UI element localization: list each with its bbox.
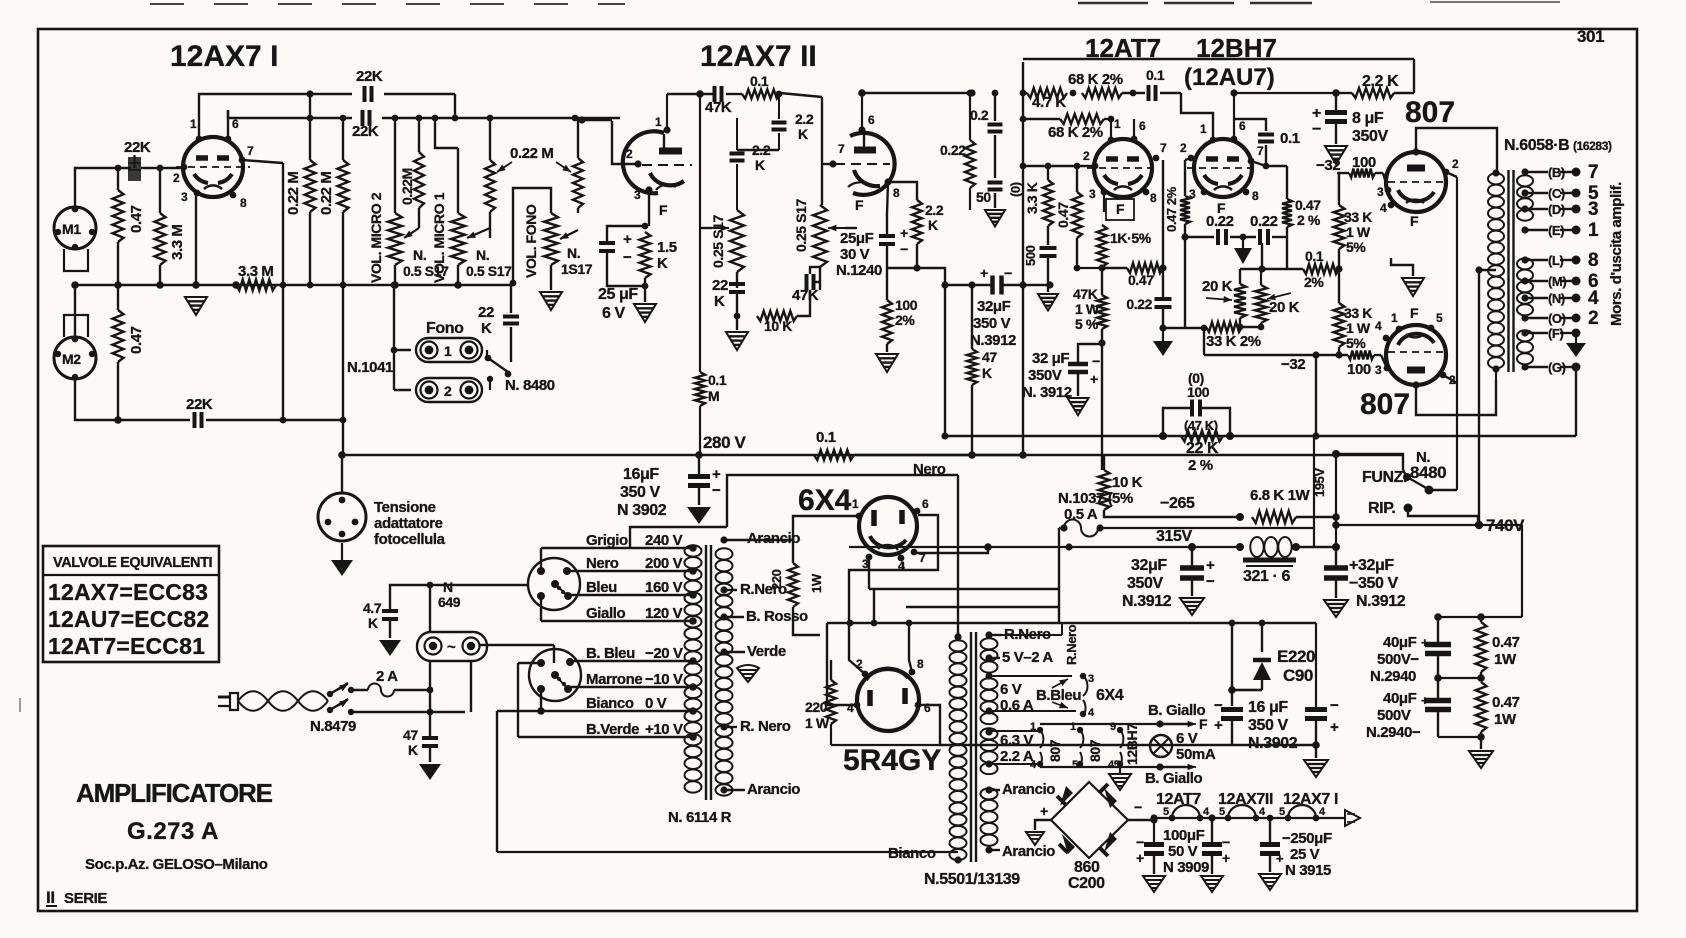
svg-text:1W: 1W (809, 573, 824, 593)
tube V7 pin3 (866, 554, 873, 561)
svg-text:Marrone: Marrone (586, 671, 642, 688)
svg-text:8: 8 (240, 196, 247, 210)
wire pin3 down (195, 196, 197, 285)
ground V2a cathode (634, 304, 656, 322)
svg-text:N 3909: N 3909 (1163, 859, 1209, 876)
resistor 3.3M horizontal (236, 280, 276, 291)
sec Arancio top (985, 786, 992, 793)
svg-text:1W: 1W (1494, 711, 1517, 728)
heater hump 12AX7I (1288, 805, 1316, 818)
svg-text:B. Bleu: B. Bleu (586, 645, 635, 662)
wire 240V feed (630, 527, 727, 548)
ground heater (1119, 767, 1121, 774)
tube V2a pin3 (645, 186, 652, 193)
ground 0.22 mid (1242, 237, 1244, 248)
svg-text:1.5: 1.5 (657, 239, 677, 256)
svg-text:240 V: 240 V (645, 532, 683, 549)
voltage selector socket lower (529, 649, 581, 701)
mic socket M2 (54, 337, 96, 379)
svg-text:adattatore: adattatore (374, 515, 443, 532)
svg-text:2 A: 2 A (376, 668, 398, 685)
svg-text:0.1: 0.1 (1146, 67, 1165, 83)
wire 0.47 M2 leads (117, 285, 119, 310)
wire V5 plate to transformer top (1416, 128, 1497, 170)
wire 47K-pot join (814, 281, 820, 283)
tube V7 pin4 (898, 555, 905, 562)
wire lower mains to 47K (430, 711, 465, 713)
svg-text:+: + (900, 225, 908, 241)
svg-text:N. 8480: N. 8480 (505, 377, 555, 394)
capacitor 250uF 25V (1260, 842, 1280, 847)
wire 0.22 leads (969, 93, 971, 140)
wire fb ends (1102, 267, 1127, 269)
resistor 0.47 2pc grid (1180, 196, 1190, 224)
wire 16uF leads (698, 455, 700, 477)
svg-text:7: 7 (1257, 144, 1264, 158)
svg-text:−: − (1136, 834, 1144, 850)
wire y269 mixer (1240, 268, 1303, 270)
resistor 0.22M micro2 series (414, 152, 424, 208)
svg-text:0.47: 0.47 (1492, 694, 1520, 711)
svg-text:9: 9 (1110, 721, 1116, 733)
svg-text:N 3915: N 3915 (1285, 862, 1331, 879)
svg-text:12AX7 I: 12AX7 I (170, 40, 278, 73)
sec tap R.Nero (720, 586, 727, 593)
resistor 0.22M right (338, 160, 349, 212)
transformer T2 right winding c (981, 728, 998, 739)
svg-text:F: F (1199, 716, 1208, 732)
svg-text:F: F (855, 197, 864, 213)
wire 3.3M riser (282, 163, 284, 420)
svg-text:K: K (408, 742, 418, 758)
svg-text:+: + (1214, 717, 1223, 734)
svg-text:B. Giallo: B. Giallo (1148, 702, 1205, 719)
wire 22K cap right (384, 93, 455, 95)
svg-text:K: K (798, 126, 808, 142)
svg-text:120 V: 120 V (645, 605, 683, 622)
tube V4 pin7 (1248, 158, 1255, 165)
svg-text:1 W: 1 W (1346, 224, 1371, 240)
tube V3 12AT7 (1094, 139, 1152, 197)
capacitor 25uF 6V (599, 241, 615, 245)
svg-text:2.2 A: 2.2 A (1000, 748, 1034, 765)
ground 100uF (1143, 876, 1165, 892)
ground bias (1304, 760, 1328, 777)
svg-text:K: K (481, 320, 492, 337)
svg-text:2: 2 (444, 383, 452, 399)
tube V5 pin3 (1385, 187, 1392, 194)
svg-text:Arancio: Arancio (1002, 781, 1055, 798)
svg-text:3.3 M: 3.3 M (238, 263, 274, 280)
svg-text:1: 1 (1070, 721, 1076, 733)
resistor 47K middle (967, 349, 977, 385)
svg-text:32μF: 32μF (1131, 557, 1167, 574)
svg-text:0 V: 0 V (645, 695, 667, 712)
svg-text:K: K (982, 365, 992, 381)
svg-text:−: − (623, 249, 632, 266)
svg-text:6: 6 (924, 701, 931, 715)
capacitor 50 bypass (988, 181, 1003, 185)
svg-text:N. 6114 R: N. 6114 R (668, 809, 732, 826)
svg-text:R. Nero: R. Nero (740, 718, 791, 735)
svg-text:F: F (1410, 305, 1419, 321)
pot fono wiper arrow (560, 230, 578, 239)
svg-text:0.22M: 0.22M (399, 168, 415, 205)
wire 33K2 chain (1204, 326, 1206, 328)
svg-text:6 V: 6 V (1176, 730, 1198, 747)
wire 2.2Kb leads (736, 118, 738, 150)
wire top link 93-118 (309, 94, 311, 118)
svg-text:32μF: 32μF (977, 298, 1011, 315)
svg-text:1: 1 (190, 117, 197, 131)
svg-text:3.3 M: 3.3 M (169, 224, 186, 260)
svg-text:47K: 47K (792, 287, 819, 304)
svg-text:M: M (708, 388, 719, 404)
output terminal D (1521, 205, 1528, 212)
svg-text:2: 2 (626, 147, 633, 161)
svg-text:10 K: 10 K (764, 318, 792, 334)
wire bias from Nero (1231, 620, 1233, 623)
svg-text:1: 1 (1391, 311, 1398, 325)
capacitor 32uF 350V right (1324, 565, 1348, 571)
transformer T-power secondary winding (716, 548, 733, 559)
wire 40uF upper leads (1437, 617, 1439, 644)
resistor 100 2percent (882, 300, 892, 344)
capacitor 2.2K a (772, 121, 787, 125)
svg-text:+: + (1330, 719, 1339, 736)
svg-text:3: 3 (1588, 199, 1598, 220)
svg-text:807: 807 (1087, 739, 1103, 762)
resistor 0.47 fb (1127, 263, 1163, 273)
wire 25uF30 top (886, 182, 888, 236)
svg-text:+: + (1276, 851, 1284, 866)
svg-text:6: 6 (922, 497, 929, 511)
wire 25uF top (607, 226, 645, 243)
wire input bottom bus (75, 284, 283, 286)
svg-text:20 K: 20 K (1269, 299, 1300, 316)
wire 33K upper leads (1336, 173, 1338, 205)
tube V3 pin2 (1092, 163, 1099, 170)
wire 220 lower (830, 660, 832, 680)
svg-text:+: + (1136, 850, 1144, 866)
filament arc 12BH7 (1120, 730, 1123, 748)
svg-text:2.2: 2.2 (795, 111, 814, 127)
ground terminal F (1566, 343, 1586, 357)
svg-text:N.3912: N.3912 (970, 332, 1016, 349)
svg-text:8: 8 (1150, 191, 1157, 205)
wire 6X4 cathode drop a (868, 558, 870, 589)
resistor 68K 2pc lower (1060, 114, 1104, 124)
svg-text:1: 1 (1200, 122, 1207, 136)
svg-text:2: 2 (1180, 141, 1187, 155)
capacitor 2.2K b (730, 152, 745, 156)
svg-text:33 K: 33 K (1344, 209, 1372, 225)
svg-text:B.Verde: B.Verde (586, 721, 639, 738)
tube V1 pin 8 (230, 192, 237, 199)
wire 4.7K bottom (389, 619, 391, 638)
capacitor 0.1 bh7 (1258, 133, 1274, 137)
svg-text:E220: E220 (1277, 647, 1315, 666)
svg-text:220: 220 (805, 699, 828, 715)
svg-text:3.3 K: 3.3 K (1024, 182, 1040, 214)
ground 4.7K (379, 640, 401, 656)
wire mains vertical right (470, 661, 472, 712)
wire lower mains (351, 711, 430, 713)
svg-text:B. Giallo: B. Giallo (1145, 770, 1202, 787)
svg-text:VOL. MICRO 2: VOL. MICRO 2 (368, 192, 384, 283)
svg-text:Verde: Verde (747, 643, 786, 660)
tube V2b pin8 (884, 178, 891, 185)
svg-text:K: K (657, 255, 668, 272)
svg-text:50 V: 50 V (1168, 843, 1198, 860)
svg-text:500: 500 (1023, 245, 1038, 266)
tube V3 pin1 (1108, 137, 1115, 144)
svg-text:25 μF: 25 μF (598, 286, 638, 303)
jack strip Fono 2 (416, 378, 482, 402)
mains switch upper (327, 691, 333, 697)
tube V5 pin4 (1388, 202, 1395, 209)
wire y93 rail AU7 (1234, 92, 1336, 94)
wire 250uF leads (1269, 818, 1271, 844)
wire 33K2 drop (1203, 328, 1205, 355)
svg-text:G.273 A: G.273 A (127, 818, 219, 845)
wire 20K left leads (1239, 269, 1241, 284)
tube V6 807 lower (1386, 325, 1446, 385)
svg-text:0.47: 0.47 (1128, 272, 1154, 288)
mains switch lower (327, 707, 333, 713)
resistor 0.47 1W lower (1476, 682, 1487, 732)
svg-text:47K: 47K (1073, 286, 1098, 302)
wire 100 bottom (886, 344, 888, 352)
svg-text:−265: −265 (1160, 495, 1195, 512)
svg-text:0.1: 0.1 (1305, 248, 1324, 264)
svg-text:8: 8 (1588, 250, 1598, 271)
capacitor 22K tone (729, 282, 745, 286)
svg-text:4: 4 (847, 701, 854, 715)
wire Nero drop to T2 (957, 475, 959, 637)
wire top rail AT7 (1023, 58, 1414, 61)
pot 0.25S17 right arrow (828, 227, 845, 229)
svg-text:1: 1 (1030, 721, 1036, 733)
wire bias diode join (1261, 689, 1263, 691)
svg-text:Grigio: Grigio (586, 532, 628, 549)
svg-text:50: 50 (976, 189, 991, 205)
svg-text:220: 220 (769, 569, 784, 590)
tube V3 pin8 (1143, 189, 1150, 196)
resistor 0.1 top (742, 90, 780, 99)
tube V1 pin 1 (198, 110, 200, 140)
ground 807 mid (1402, 278, 1424, 296)
tube V7 6X4 (859, 497, 917, 555)
pot micro2 wiper arrow (404, 228, 419, 238)
arrow 0.22M to left resistor (497, 162, 512, 172)
arrow heater bottom (1160, 766, 1193, 768)
tube V1 12AX7-I (183, 137, 243, 197)
voltage selector socket upper (528, 558, 580, 610)
svg-text:5 %: 5 % (1075, 316, 1099, 332)
svg-text:Giallo: Giallo (586, 605, 626, 622)
potentiometer VOL MICRO 2 (388, 213, 402, 265)
wire 100 lower right (1374, 354, 1381, 356)
svg-text:F: F (659, 202, 668, 218)
svg-text:4: 4 (1375, 319, 1382, 333)
svg-text:−: − (712, 482, 721, 499)
svg-text:N.3912: N.3912 (1122, 593, 1172, 610)
svg-text:3: 3 (1377, 185, 1384, 199)
svg-text:807: 807 (1405, 96, 1455, 129)
svg-text:10 K: 10 K (1112, 474, 1143, 491)
svg-text:22K: 22K (186, 396, 213, 413)
wire V2a plate drop lower (699, 406, 701, 455)
svg-text:4.7: 4.7 (363, 600, 382, 616)
svg-text:3: 3 (181, 190, 188, 204)
wire 6X4 cathode out (916, 547, 988, 553)
resistor 3.3K (1043, 180, 1053, 226)
output terminal G (1521, 363, 1528, 370)
tube V2b 12AX7-II triode (850, 133, 895, 195)
wire micro1 pot top (457, 148, 459, 213)
wire selector upper TL (540, 548, 542, 571)
capacitor 22K coupling top (363, 86, 367, 102)
wire fuse left (1059, 527, 1064, 529)
svg-text:Nero: Nero (586, 555, 619, 572)
bridge rectifier 860 C200 outline (1051, 782, 1128, 858)
resistor 33K 1W upper (1334, 205, 1345, 249)
wire 0.22M left leads (309, 118, 311, 160)
svg-text:K: K (714, 293, 725, 310)
svg-text:30 V: 30 V (840, 246, 870, 263)
svg-text:160 V: 160 V (645, 579, 683, 596)
wire 32uF left leads (1191, 547, 1193, 568)
heater chain wire (1154, 817, 1345, 819)
sec 6V row2 (985, 707, 992, 714)
capacitor 32uF 350V screen (1068, 362, 1088, 367)
ground 500 (1038, 294, 1058, 310)
svg-text:7: 7 (838, 142, 845, 156)
svg-text:FUNZ.: FUNZ. (1362, 469, 1407, 486)
transformer T2 right winding b (981, 678, 998, 689)
wire 2.2K ends (1336, 92, 1352, 94)
wire 50 bottom (994, 193, 996, 208)
svg-text:N. 3912: N. 3912 (1022, 384, 1072, 401)
svg-text:2 %: 2 % (1188, 457, 1213, 474)
svg-text:fotocellula: fotocellula (374, 531, 446, 548)
sec 5V row (985, 631, 992, 638)
wire fono2 left (394, 389, 411, 391)
capacitor 0.2 coupling (988, 123, 1003, 127)
tube V7 pin7 (911, 549, 918, 556)
wire channel y623 (827, 622, 1316, 624)
svg-text:B.Bleu: B.Bleu (1036, 687, 1081, 704)
wire supply bus 436 / G return (944, 435, 1576, 437)
svg-text:B. Rosso: B. Rosso (746, 608, 808, 625)
svg-text:(0): (0) (1008, 182, 1023, 197)
tube V3 pin3 (1101, 189, 1108, 196)
svg-text:N.1240: N.1240 (836, 262, 882, 279)
wire divider top (1438, 616, 1522, 618)
svg-text:8: 8 (1252, 189, 1259, 203)
sec tap Verde (720, 648, 727, 655)
wire top bus V2 (726, 93, 742, 95)
bridge diode SE (1104, 832, 1117, 852)
capacitor bias right (1305, 707, 1327, 712)
tube V7 pin6 (914, 508, 921, 515)
svg-text:5: 5 (1279, 806, 1285, 818)
svg-text:20 K: 20 K (1202, 278, 1233, 295)
transformer T-out sec winding 3 (1517, 330, 1533, 341)
scan artifact top left (150, 3, 625, 5)
svg-text:16 μF: 16 μF (1248, 699, 1288, 716)
arrow 0.22M to right resistor (556, 162, 571, 172)
resistor 0.22M fono series (573, 158, 583, 208)
svg-text:0.1: 0.1 (1280, 130, 1300, 147)
svg-text:SERIE: SERIE (64, 890, 107, 907)
resistor 0.47 2pc bh7 (1282, 199, 1292, 227)
capacitor 40uF 500V upper (1425, 642, 1451, 648)
wire V2b grid drop (821, 97, 823, 205)
tube V1 pin 7 (239, 157, 246, 164)
svg-text:Soc.p.Az. GELOSO–Milano: Soc.p.Az. GELOSO–Milano (85, 856, 268, 873)
svg-text:~: ~ (447, 639, 456, 656)
svg-text:−20 V: −20 V (645, 645, 683, 662)
svg-text:12AX7 I: 12AX7 I (1283, 791, 1338, 808)
wire 100uF down (1153, 854, 1155, 874)
wire primary tap (1475, 266, 1482, 273)
wire 0.1 right jog (1160, 92, 1181, 94)
svg-text:1: 1 (655, 115, 662, 129)
svg-text:8: 8 (893, 186, 900, 200)
svg-text:4.7 K: 4.7 K (1032, 94, 1066, 111)
svg-text:32 μF: 32 μF (1032, 350, 1069, 367)
bridge diode SW (1062, 834, 1075, 854)
wire 740V rail (1336, 524, 1478, 526)
svg-text:12AT7=ECC81: 12AT7=ECC81 (48, 633, 205, 659)
svg-text:1K·5%: 1K·5% (1110, 230, 1152, 246)
resistor 0.22 to grid (965, 140, 975, 188)
capacitor 47K tone (805, 274, 809, 290)
wire 3.3K leads (1047, 166, 1049, 180)
svg-text:4: 4 (1380, 201, 1387, 215)
svg-text:2: 2 (173, 171, 180, 185)
wire selector lower BL (540, 689, 542, 711)
wire 220 upper bottom (793, 607, 820, 635)
wire Arancio to 220 (745, 540, 793, 563)
wire 6X4 cathode drop b (902, 562, 904, 570)
wire 33K lower leads (1338, 269, 1340, 303)
capacitor 0.22 right (1258, 229, 1262, 245)
svg-text:5: 5 (1436, 311, 1443, 325)
wire 32uF screen leads (1078, 344, 1102, 364)
svg-text:500V−: 500V− (1377, 651, 1419, 668)
svg-text:N.8479: N.8479 (310, 718, 356, 735)
svg-text:+: + (1421, 693, 1429, 708)
svg-text:+: + (623, 231, 632, 248)
tube V5 807 upper (1386, 152, 1446, 212)
resistor 100 upper (1349, 169, 1375, 178)
resistor 33K 1W lower (1334, 303, 1345, 347)
svg-text:45: 45 (1108, 759, 1120, 771)
svg-text:+: + (1312, 105, 1321, 122)
transformer T2 left winding (950, 640, 967, 651)
tube V1 pin 3 (194, 190, 201, 197)
svg-text:1 W: 1 W (1346, 320, 1371, 336)
wire M2 down to 22K cap run (75, 379, 190, 420)
wire mains vertical left (429, 585, 431, 632)
ground 0.22 at7 (1153, 341, 1173, 356)
svg-text:+: + (1090, 371, 1098, 387)
wire bridge minus to chain (1153, 818, 1155, 844)
svg-text:N.1037 (: N.1037 ( (1058, 490, 1113, 507)
